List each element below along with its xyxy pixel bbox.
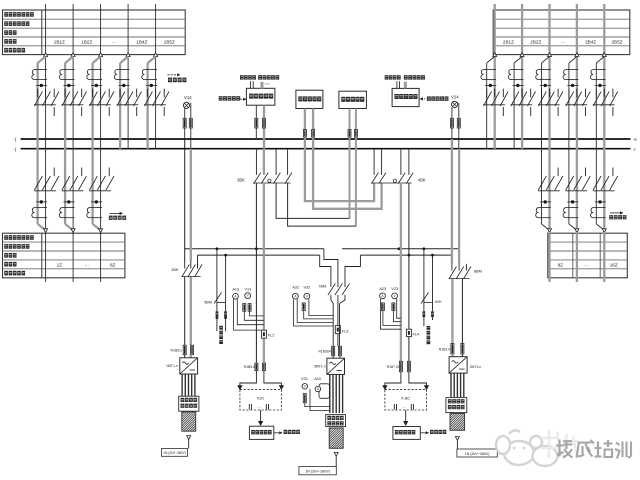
lower current transformer CT [563,208,578,218]
current transformer CT [59,70,74,80]
drawout contact arrow [602,53,606,57]
svg-text:R1B7.01: R1B7.01 [387,365,400,369]
drawout contact arrow [548,53,552,57]
capacitor bank X3C (dashed cubicle) [240,389,282,410]
4BK pole feed [400,149,402,175]
3BK pole feed [255,149,257,175]
wire from PT label to box A 2 [252,81,254,88]
feeder hook conductor [91,63,93,224]
main DC bus I [21,138,631,140]
lower switch blade [574,176,582,190]
3BK pole feed [263,149,265,175]
8BM blade [449,267,457,280]
junction dot [40,84,43,87]
arrow into box right [404,421,408,425]
switch blade [492,92,500,107]
capacitor element c [394,404,396,410]
junction tick [513,84,524,86]
svg-text:···: ··· [257,405,261,409]
3BK pole 2 gray feed [263,149,265,175]
junction tick [595,84,606,86]
lower switch blade [106,176,114,190]
wire hook bend [596,57,604,64]
lower switch bar [34,190,56,192]
switch pole contact [585,89,587,98]
svg-text:1N (2kV~380V): 1N (2kV~380V) [163,451,186,455]
lower junction tick [91,201,102,203]
outgoing feeder through table [576,232,578,282]
svg-text:X3C: X3C [257,396,265,401]
switch pole contact [541,89,543,98]
switch bar [538,104,560,106]
8BM bar [449,278,470,280]
hook to outgoing table [596,224,604,230]
svg-text:-II: -II [633,137,637,142]
lower junction tick [595,201,606,203]
switch pole contact [595,89,597,98]
feeder hook conductor [513,63,515,149]
lower switch bar [565,190,587,192]
fuse V13 b [248,304,251,312]
4BK pole feed [373,149,375,175]
svg-text:1N (2kV~380V): 1N (2kV~380V) [465,452,490,456]
switch pole contact [45,89,47,98]
svg-text:1N (2kV~380V): 1N (2kV~380V) [305,470,330,474]
switch pole contact [494,89,496,98]
fuse box A wire 2 [263,118,266,128]
svg-text:···: ··· [402,405,406,409]
battery cell 62K b [431,311,434,317]
switch blade [610,92,618,107]
lower switch blade [42,176,50,190]
switch pole contact [147,89,149,98]
feeder main conductor [494,57,496,149]
arrow label: to shielding cabinet (left) [274,432,279,434]
drawout contact arrow [520,53,524,57]
switch pole contact [502,89,504,98]
switch blade [538,92,546,107]
lower junction tick [36,201,47,203]
wire hook bend [38,57,46,64]
wire: box C line 1 weave to 3BK pole 3 [349,109,351,219]
feeder hook conductor [486,63,488,149]
3BK pole feed [275,149,277,175]
junction tick [485,84,496,86]
switch pole contact [530,89,532,98]
fuse box B wire 2 [312,130,315,138]
lower switch bar [62,190,84,192]
incoming feeder line [521,4,523,55]
wire V24 to bus I [451,107,453,139]
svg-text:R1B3.4: R1B3.4 [439,348,450,352]
wire from PT label to box A [249,81,251,88]
7BM blade [335,284,343,296]
junction tick [567,84,578,86]
svg-text:1B5Z: 1B5Z [164,40,175,45]
switch pole contact [100,89,102,98]
wire [190,355,192,358]
label: 1N (2kV~380V) left [162,449,188,457]
junction dot [67,84,70,87]
wire [216,319,218,331]
panel: microcomputer charger (box A) [246,88,275,105]
label: 1N (2kV~380V) center [299,467,336,475]
arrow into X.BC right [425,386,429,390]
wire: 1BK to charger 1MT1 [184,277,186,345]
lower junction dot [544,200,547,203]
current transformer CT [142,70,157,80]
switch blade [106,92,114,107]
cable hatch band center [329,428,343,448]
7BM pole [337,280,339,287]
fuse on V24 wire 2 [457,118,460,128]
drawout contact arrow [154,53,158,57]
1BK pole contact [190,262,192,269]
8BM pole contact [465,264,467,271]
incoming feeder line [603,4,605,55]
fuse FL4 [406,329,411,336]
meter wiring to FL2 line [250,311,264,316]
current transformer CT [563,70,578,80]
incoming feeder line [548,4,550,55]
switch blade [161,92,169,107]
switch blade [566,92,574,107]
label box: charger output panel (center) [326,415,346,427]
hook to outgoing table [569,224,577,230]
battery cell 5BM b [224,311,227,319]
cable hatch band 1 [182,412,196,431]
collector left end stub to 1BK pole3 [197,255,199,268]
switch blade [51,92,59,107]
outgoing feeder through table [72,232,74,282]
fuse FL2 [261,330,266,338]
lower switch bar [89,190,111,192]
switch bar [483,104,505,106]
switch pole contact [37,89,39,98]
lower current transformer CT [536,208,551,218]
lower junction dot [571,200,574,203]
4BK pole feed [381,149,383,175]
svg-text:62K: 62K [435,300,442,304]
switch blade [593,92,601,107]
feeder main conductor [548,57,550,233]
panel: microcomputer charger (box D) [392,88,419,106]
junction tick [91,84,102,86]
8BM blade [456,267,464,280]
label: storage battery panel (vertical right) [427,326,431,344]
wire: 1BK feed pair from bus [184,139,186,262]
arrow label: to transformer (left) [110,212,120,214]
svg-text:(TV): (TV) [264,82,270,86]
switch blade [519,92,527,107]
feeder main conductor [521,57,523,149]
wire [337,334,339,347]
wire V24 to bus II [458,103,460,149]
1BK blade [182,265,190,278]
junction dot [150,84,153,87]
DC distribution collector line 1 [185,248,324,250]
switch pole contact [513,89,515,98]
fuse on V24 wire [450,118,453,128]
feeder hook conductor [568,63,570,224]
1BK bar [182,276,201,278]
feeder main conductor [72,57,74,233]
label: storage battery panel (vertical) [219,326,223,344]
switch bar [117,104,139,106]
svg-text:1B2Z: 1B2Z [81,40,92,45]
svg-text:A23: A23 [379,287,386,291]
outgoing drawout arrow [602,229,606,233]
outgoing drawout arrow [99,229,103,233]
switch blade [601,92,609,107]
capacitor element b [266,404,268,410]
wires into X3C box [240,371,257,386]
8BM pole contact [451,264,453,271]
8BM blade [463,267,471,280]
wire box A to bus II [263,105,265,149]
switch pole stub lower [502,107,504,116]
switch blade [152,92,160,107]
wire to label [188,439,190,448]
fuse box C wire 2 [354,130,357,138]
switch blade [546,92,554,107]
hook to outgoing table [93,224,101,230]
3BK blade [273,173,280,184]
lower switch blade [34,176,42,190]
drawout contact arrow [575,53,579,57]
switch blade [89,92,97,107]
drawout contact arrow [126,53,130,57]
switch blade [511,92,519,107]
svg-text:5BM: 5BM [204,301,212,305]
svg-text:2MT1-n: 2MT1-n [470,365,482,369]
svg-text:3BK: 3BK [237,177,245,182]
switch bar [511,104,533,106]
4BK blade [398,173,405,184]
table row label 1 [4,12,33,17]
switch blade [144,92,152,107]
box: battery switching cabinet (right) [393,427,420,440]
svg-text:7BM: 7BM [318,285,326,289]
switch blade [574,92,582,107]
switch pole contact [72,89,74,98]
svg-text:R1B5U4: R1B5U4 [319,350,332,354]
wire [184,355,186,358]
lower switch blade [51,176,59,190]
wire hook bend [514,57,522,64]
top-left feeder data table [3,10,186,55]
fuse V23 [392,303,395,311]
1BK blade [188,265,196,278]
svg-text:4BK: 4BK [418,177,426,182]
feeder hook conductor [64,63,66,224]
svg-text:V14: V14 [184,95,192,100]
outgoing arrow 1 [187,436,191,440]
feeder main conductor [576,57,578,233]
feeder hook conductor [541,63,543,224]
collector right end drops to 8BM [458,249,460,264]
lower switch blade [566,176,574,190]
current transformer CT [508,70,523,80]
meter wiring to 7BM [294,299,333,326]
junction dot [122,84,125,87]
svg-text:16Z: 16Z [610,262,618,267]
outgoing arrow right [455,437,459,441]
junction dot [489,84,492,87]
outgoing drawout arrow [71,229,75,233]
lower switch blade [593,176,601,190]
label above box A: from PT [240,75,256,79]
svg-text:1MT1-n: 1MT1-n [166,364,178,368]
62K pole 2 feed [432,255,434,303]
switch blade [555,92,563,107]
svg-text:-I: -I [633,147,636,152]
drawout contact arrow [44,53,48,57]
fuse A23 [381,303,384,311]
gray stub above box D [404,82,407,89]
transformer winding stack center [330,374,343,413]
switch blade [42,92,50,107]
switch pole contact [119,89,121,98]
feeder hook conductor [36,63,38,224]
svg-text:2B5Z: 2B5Z [612,40,623,45]
outgoing feeder through table [100,232,102,282]
svg-text:1B4Z: 1B4Z [136,40,147,45]
table row label 4 [4,39,16,44]
bottom-right feeder data table [548,233,628,278]
lower switch blade [601,176,609,190]
feeder hook conductor [595,63,597,224]
wire: box B to bus crossing, weave to 4BK pole 1 [305,109,374,202]
outgoing feeder through table [603,232,605,282]
fuse on V14 wire 2 [189,118,192,128]
feeder main conductor [603,57,605,233]
svg-text:···: ··· [85,262,90,267]
svg-text:V24: V24 [451,95,459,100]
svg-text:1B1Z: 1B1Z [54,40,65,45]
4BK blade [406,173,413,184]
5BM pole 1 feed [216,249,218,303]
label box: charger output panel (left) [179,396,199,411]
lower switch pole stub [53,168,55,177]
svg-text:9Z: 9Z [558,262,564,267]
fuse FL5 [335,326,340,334]
bottom table row label 4 [4,262,16,267]
watermark ghost characters [541,430,578,458]
arrow into box [259,421,263,425]
junction dot [95,84,98,87]
lower junction dot [40,200,43,203]
switch pole stub lower [136,107,138,116]
1BK blade [195,265,203,278]
incoming feeder line [494,4,496,55]
switch pole stub lower [530,107,532,116]
svg-text:2B4Z: 2B4Z [585,40,596,45]
switch pole contact [64,89,66,98]
outgoing feeder through table [45,232,47,282]
wire hook bend [65,57,73,64]
incoming feeder line [100,4,102,55]
column dividers bottom-right table [572,233,574,278]
wire label to box D [396,81,398,88]
switch blade [70,92,78,107]
current transformer CT [481,70,496,80]
hook to outgoing table [542,224,550,230]
lower switch pole stub [612,168,614,177]
wire V14 to bus I [184,108,186,139]
5BM pole 2 feed [225,255,227,303]
main DC bus II [21,148,631,150]
switch bar [62,104,84,106]
lower switch pole stub [557,168,559,177]
lower switch blade [582,176,590,190]
lower junction dot [95,200,98,203]
4BK pole feed [408,149,410,175]
meter wiring joins X.BC feed pair [381,299,401,329]
lower current transformer CT [32,208,47,218]
svg-text:FL2: FL2 [268,334,275,338]
junction dot [571,84,574,87]
cable hatch band right [450,414,465,431]
switch pole contact [549,89,551,98]
lower junction tick [540,201,551,203]
fuse V32 [302,303,305,311]
capacitor bank X.BC (dashed cubicle) [385,389,427,410]
label above box A: auto regulator [258,75,279,79]
table row label 5 [4,48,25,53]
current transformer CT [32,70,47,80]
panel: generator protection (box B) [296,90,323,108]
dashed arrow into box A with label [240,98,245,100]
top-right feeder data table [493,10,630,55]
junction tick [36,84,47,86]
lower junction tick [64,201,75,203]
fuse under V33 [303,394,306,403]
DC distribution collector line 2 [198,254,320,256]
svg-text:V32: V32 [304,285,311,289]
dashed arrow out of box D with label [421,98,426,100]
battery cell 5BM a [216,311,219,319]
wire hook bend [93,57,101,64]
svg-text:···: ··· [112,40,117,45]
arrow into X3C left [238,386,242,390]
label above box D: auto regulator [404,75,425,79]
bottom table row label 5 [4,271,25,276]
svg-text:1Z: 1Z [57,262,63,267]
svg-text:1BK: 1BK [171,267,179,272]
wire: box C line 2 weave to 3BK pole 4 [355,109,357,227]
wire label to box D 2 [399,81,401,88]
7BM blade [328,284,336,296]
switch pole stub lower [557,107,559,116]
5BM bar [217,302,226,304]
bottom table row label 1 [4,235,33,240]
wire: X.BC feed pair (4BK poles 3-4 down) [400,183,402,361]
switch pole contact [486,89,488,98]
rectifier charger 2MT1-n [449,357,467,373]
current transformer CT [87,70,102,80]
drawout contact arrow [493,53,497,57]
bottom-left feeder data table [3,233,125,278]
4BK blade [379,173,386,184]
switch bar [144,104,166,106]
hook to outgoing table [65,224,73,230]
junction dot [544,84,547,87]
svg-text:R1B5.6: R1B5.6 [244,365,255,369]
switch bar [593,104,615,106]
drawout contact arrow [99,53,103,57]
fuse box C wire 1 [348,130,351,138]
